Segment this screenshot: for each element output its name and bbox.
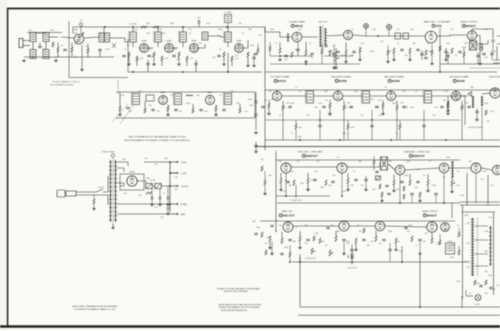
horiz osc triode V14b <box>439 163 449 173</box>
horiz AFC triode V14a <box>395 165 405 175</box>
wire IF gnd 3b <box>186 61 188 66</box>
wire sound n4a <box>321 44 323 48</box>
video detector diode coils <box>468 92 483 108</box>
boost capacitor under outputs <box>166 208 169 213</box>
resistor afc in1 <box>373 160 375 165</box>
wire rowB main drop 3 <box>390 90 392 91</box>
wire det c1b <box>476 113 478 118</box>
wire rowD drop3 <box>335 231 337 236</box>
ground rowC 4 <box>392 189 396 192</box>
svg-text:.005: .005 <box>400 103 404 105</box>
svg-text:470: 470 <box>491 185 494 187</box>
power output arrow 6.3VAC <box>170 203 188 206</box>
wire IF gnd 4a <box>223 57 225 62</box>
resistor rowB main Ra1 <box>268 103 270 108</box>
rowC right box top <box>466 173 468 205</box>
capacitor rowC c1 <box>254 145 257 146</box>
resistor rowD r5 <box>319 238 321 244</box>
svg-text:.002: .002 <box>484 29 488 31</box>
IF transformer T2 <box>154 31 162 43</box>
afc diode1 <box>376 176 381 180</box>
wire RF amp grid <box>49 36 58 38</box>
wire sound bus <box>265 27 292 37</box>
junction collector 1 <box>169 161 171 163</box>
dashed alignment pointer 1 <box>112 104 128 122</box>
junction rowB b2 <box>339 139 341 141</box>
stage title 3rd video IF <box>384 76 404 84</box>
ground transformer <box>111 226 115 229</box>
wire rowB drop4 <box>192 104 194 108</box>
wire rowC c1 stub <box>255 142 257 145</box>
wire C1 stub <box>39 43 41 46</box>
bottom box left side <box>299 257 301 307</box>
wire feed c1b <box>253 59 255 64</box>
wire sound drop 1 <box>279 42 281 48</box>
junction sound n2 <box>305 63 307 65</box>
wire afc to osc <box>405 168 439 170</box>
ground rowC 1 <box>279 188 283 191</box>
rowC bottom rail <box>276 195 330 197</box>
height control <box>329 250 333 256</box>
svg-text:120: 120 <box>381 41 384 43</box>
resistor bus decoupling Rb <box>153 26 159 28</box>
svg-text:.002: .002 <box>360 43 364 45</box>
power collector vertical <box>169 162 171 212</box>
capacitor IF C4a <box>217 55 220 56</box>
ground sound e2 <box>358 58 362 61</box>
svg-text:.25: .25 <box>189 33 192 35</box>
svg-text:2.2M: 2.2M <box>294 49 298 51</box>
ratio det tube V9a <box>343 30 352 39</box>
svg-text:.01: .01 <box>457 171 460 173</box>
svg-text:SYNC SEP + SYNC AMP: SYNC SEP + SYNC AMP <box>298 151 323 154</box>
svg-text:RATIO DET + 1ST AF AMP: RATIO DET + 1ST AF AMP <box>424 21 451 24</box>
svg-text:+ BOOST SOURCE: + BOOST SOURCE <box>467 127 483 129</box>
wire rowB main down 2 <box>343 110 345 140</box>
bottom long rail 2 <box>298 314 500 316</box>
resistor ratio R4 <box>329 50 331 56</box>
wire rowB agc1b <box>319 127 321 140</box>
capacitor AF C5 <box>400 49 403 50</box>
wire L pair link2 <box>45 42 47 50</box>
resistor rowD r10 <box>411 236 413 242</box>
oscillator tuning arrow <box>75 33 85 45</box>
capacitor afc low6 <box>434 193 437 194</box>
capacitor rowD c1 <box>254 233 257 234</box>
wire det out <box>482 93 490 94</box>
wire vert link3 <box>385 226 427 227</box>
capacitor audio k2 <box>476 55 479 56</box>
ground AF 2 <box>408 58 412 61</box>
wire rowB agc3a <box>423 110 425 125</box>
wire afc lw1 <box>381 197 383 199</box>
resistor det r2 <box>485 110 487 115</box>
ground IF 1 <box>127 63 131 66</box>
wire AF plate to audio <box>437 35 467 36</box>
wire rowB g2 <box>167 111 169 113</box>
capacitor audio C8 <box>482 53 485 54</box>
wire rowC tube2 drop <box>341 173 343 196</box>
video IF tube rowB V4 <box>451 91 460 100</box>
svg-text:470: 470 <box>481 179 484 181</box>
wire rowD g4 <box>395 244 397 249</box>
svg-text:6SL7GT: 6SL7GT <box>283 214 295 218</box>
ground rowD 6 <box>342 252 346 255</box>
wire sound net h2 <box>270 63 360 65</box>
resistor IF R3a <box>178 52 180 57</box>
wire rowB main down 3 <box>396 110 398 140</box>
audio output transformer T6 <box>470 41 477 50</box>
wire det r1a <box>447 96 449 101</box>
svg-text:.005: .005 <box>197 18 201 20</box>
ground rowC 2 <box>306 188 310 191</box>
resistor width R30 <box>458 232 460 237</box>
wire audio out b <box>491 55 493 60</box>
wire det c1a <box>476 108 478 111</box>
resistor afc extra1 <box>379 184 381 189</box>
capacitor flyback c1 <box>479 285 482 286</box>
svg-text:.25: .25 <box>219 95 222 97</box>
svg-text:2.2M: 2.2M <box>460 195 464 197</box>
ground hold <box>450 190 454 193</box>
wire rowD x5a <box>351 244 353 249</box>
wire audio mid rail <box>440 63 500 65</box>
svg-text:2.2M: 2.2M <box>484 231 488 233</box>
vert output tube V13 <box>427 222 437 232</box>
wire R2 gnd <box>57 52 59 57</box>
wire rowB main ra 2 <box>329 100 331 103</box>
capacitor rowC c2 <box>286 181 289 182</box>
wire HV top2 <box>117 168 124 172</box>
wire antenna to coil <box>23 40 30 42</box>
resistor linearity R31 <box>458 250 460 255</box>
power value labels <box>122 158 178 219</box>
svg-text:RF UNIT CHANNELS 2 THRU 13: RF UNIT CHANNELS 2 THRU 13 <box>53 81 80 84</box>
rowC right box right <box>487 175 489 205</box>
rowD bottom rail <box>292 261 470 263</box>
resistor rowB main Ra4 <box>447 103 449 108</box>
ground rowB 3 <box>214 113 218 116</box>
resistor rowC r6 <box>347 178 349 184</box>
video IF transformer T10 <box>305 90 313 104</box>
capacitor 6T8 out <box>446 55 449 56</box>
resistor afc low1 <box>381 192 383 197</box>
svg-text:OVERALL PERFORMANCE OF BOTH PI: OVERALL PERFORMANCE OF BOTH PICTURE AND <box>218 306 260 309</box>
wire audio screen a <box>481 42 483 46</box>
wire rowB main ra 1 <box>268 100 270 103</box>
wire rowB link4 <box>370 95 387 97</box>
wire flyback tap2 <box>475 239 489 241</box>
svg-text:1500: 1500 <box>249 105 253 107</box>
resistor det r1 <box>447 101 449 106</box>
svg-text:470: 470 <box>55 57 58 59</box>
capacitor ratio C4 <box>352 51 355 52</box>
capacitor AF n7 <box>420 53 423 54</box>
svg-text:.005: .005 <box>446 43 450 45</box>
svg-text:.01: .01 <box>415 91 418 93</box>
svg-text:.005: .005 <box>490 111 494 113</box>
bottom page rule <box>0 325 500 327</box>
wire dashed audio <box>470 67 500 69</box>
capacitor rowB main Ca4 <box>440 106 443 107</box>
wire sound n1b <box>269 51 271 56</box>
svg-text:.005: .005 <box>465 103 469 105</box>
svg-text:5U4G: 5U4G <box>130 172 135 174</box>
sound takeoff coil <box>287 33 289 42</box>
wire trap to T4 <box>208 36 225 37</box>
wire audio cathode <box>477 36 480 45</box>
stage title horiz afc osc <box>404 151 431 159</box>
wire rowD g5 <box>271 242 273 253</box>
resistor rowB r4 <box>192 108 194 113</box>
resistor 6T8 plate <box>439 46 441 51</box>
svg-text:6AG5: 6AG5 <box>161 91 166 94</box>
wire R4 drop <box>87 44 89 48</box>
wire sound n2a <box>297 42 299 49</box>
wire 6T8 out b <box>447 57 449 64</box>
wire R3 gnd <box>71 52 73 57</box>
resistor 6T8 cathode <box>431 50 433 55</box>
capacitor rowB c4 <box>199 109 202 110</box>
ground tuner mid <box>54 59 58 62</box>
svg-text:2.2M: 2.2M <box>372 29 376 31</box>
sync amp triode V6b <box>337 163 347 173</box>
resistor rowB deep3 <box>399 124 401 129</box>
wire rowB main rb 1 <box>282 101 284 105</box>
wire R2 drop <box>57 43 59 47</box>
horiz output tube V16 <box>471 163 481 173</box>
wire rowC r1b b <box>264 185 266 192</box>
resistor rowB main Ra2 <box>329 103 331 108</box>
rowD value labels <box>256 227 448 253</box>
mixer transformer L5b <box>105 33 110 42</box>
svg-text:.25: .25 <box>217 35 220 37</box>
IF tube V6 <box>235 44 244 53</box>
wire rowB agc2a <box>371 110 373 125</box>
svg-text:.005: .005 <box>414 187 418 189</box>
power transformer secondary <box>114 160 117 222</box>
svg-text:21.25MC: 21.25MC <box>224 12 232 14</box>
wire yoke bottom <box>461 296 463 308</box>
vert hold control <box>311 248 315 254</box>
wire rowB link1 <box>282 95 307 97</box>
interlock switch <box>96 189 108 192</box>
afc discriminator transformer <box>381 157 388 170</box>
svg-text:.002: .002 <box>304 225 308 227</box>
wire test point drop <box>80 26 82 33</box>
resistor IF R2b <box>161 56 163 61</box>
ground IF 2 <box>152 63 156 66</box>
svg-text:.01: .01 <box>85 46 88 48</box>
extra labels row D <box>252 221 459 243</box>
svg-text:.002: .002 <box>378 115 382 117</box>
capacitor rowD x5 <box>350 249 353 250</box>
svg-text:.005: .005 <box>270 99 274 101</box>
wire IF bus drop 3 <box>182 27 184 32</box>
AF amp triode V9b 6T8 <box>425 31 437 43</box>
mixer transformer L5a <box>99 33 104 42</box>
svg-text:TO VERT OSC: TO VERT OSC <box>290 200 302 202</box>
junction collector 4 <box>169 203 171 205</box>
wire hold gnd <box>451 186 453 190</box>
capacitor sound C1 <box>284 55 287 56</box>
capacitor rowD c4 <box>342 239 345 240</box>
svg-text:AUDIO OUTPUT: AUDIO OUTPUT <box>461 21 478 24</box>
svg-text:470: 470 <box>325 245 328 247</box>
wire rowB main rb 4 <box>461 101 463 105</box>
svg-text:470: 470 <box>311 57 314 59</box>
wire osc cathode long <box>81 45 83 68</box>
wire rowC e1b <box>365 181 367 188</box>
ground rowB main 2 <box>328 112 332 115</box>
svg-text:.005: .005 <box>234 55 238 57</box>
wire T6 secondary right <box>472 29 493 39</box>
resistor AF R8 <box>425 50 427 56</box>
svg-text:.005: .005 <box>190 58 194 60</box>
wire flyback tap4 <box>475 265 489 267</box>
resistor sound extra2 <box>359 48 361 53</box>
capacitor rowB main Cb2 <box>349 106 352 107</box>
wire rowB agc3b <box>423 127 425 140</box>
AC line cord wires <box>76 192 96 195</box>
capacitor C1 tuner <box>38 46 41 47</box>
wire fg2 <box>159 200 161 203</box>
wire flyback right <box>493 212 495 295</box>
junction rowD 1 <box>299 261 301 263</box>
svg-text:.047: .047 <box>144 158 148 160</box>
wire rowD g3 <box>355 244 357 249</box>
wire IF gnd 3a <box>178 57 180 62</box>
wire tuner upper rail <box>27 32 62 34</box>
wire AF n7a <box>421 50 423 53</box>
tuner shield vertical <box>68 21 70 78</box>
power transformer primary <box>109 160 112 222</box>
capacitor rowC c5 <box>354 179 357 180</box>
resistor sound n4 <box>321 48 323 53</box>
ground boost cap <box>166 212 170 215</box>
wire rowB drop6 <box>239 104 241 108</box>
wire sound n3a <box>333 46 335 53</box>
T5 secondary winding <box>324 28 327 45</box>
svg-text:1ST VIDEO IF AMP: 1ST VIDEO IF AMP <box>270 76 290 79</box>
wire rowD x6a <box>389 243 391 249</box>
ground IF 3 <box>177 63 181 66</box>
wire IF end gnd <box>247 57 249 64</box>
resistor rowC r3 <box>293 180 295 186</box>
wire rowB deep3a <box>399 120 401 124</box>
power output arrow 5VAC <box>170 213 186 216</box>
wire sound n2b <box>297 51 299 56</box>
row B bottom rail <box>265 139 500 141</box>
ground rowD 4 <box>394 248 398 251</box>
svg-text:.002: .002 <box>378 243 382 245</box>
resistor rowD x7 <box>439 240 441 245</box>
wire mixer out <box>110 38 129 42</box>
filter capacitor C20a <box>151 196 152 199</box>
video IF transformer T12 <box>423 90 431 104</box>
resistor afc extra3 <box>403 186 405 191</box>
stage title sync sep <box>298 151 323 159</box>
svg-text:.047: .047 <box>450 245 454 247</box>
ground feed <box>252 64 256 67</box>
junction bus a1 <box>104 26 106 28</box>
sound IF tube V7 6BA6 <box>292 32 302 42</box>
wire test point 2 drop <box>365 28 367 36</box>
capacitor afc extra2 <box>385 185 388 186</box>
wire bus drop tuner <box>72 27 74 33</box>
wire IF gnd 2a <box>153 57 155 62</box>
wire L2 bottom <box>32 57 34 59</box>
capacitor rowB agc3 <box>422 125 425 126</box>
svg-text:.047: .047 <box>282 191 286 193</box>
row B mid rail <box>265 119 460 121</box>
wire ratio det out <box>353 35 366 36</box>
rowB deep labels <box>291 127 397 135</box>
wire T4 to tube <box>227 42 229 47</box>
capacitor rowD x3 <box>280 253 283 254</box>
svg-text:6K6GT: 6K6GT <box>466 24 476 28</box>
capacitor rowC c7 <box>416 181 419 182</box>
horiz osc coil <box>451 161 454 178</box>
svg-text:.01: .01 <box>295 227 298 229</box>
svg-text:120: 120 <box>189 29 192 31</box>
wire L1-L3 top <box>36 32 46 35</box>
svg-text:.005: .005 <box>165 58 169 60</box>
wire AF drop 2 <box>409 54 411 59</box>
capacitor rowB main Ca1 <box>261 106 264 107</box>
extra labels row B <box>269 87 490 123</box>
junction rowD 3 <box>289 261 291 263</box>
resistor rowD x4 <box>313 236 315 241</box>
flyback dashed core <box>477 218 479 276</box>
junction rowC rail1 <box>285 195 287 197</box>
wire rowC g1 <box>280 184 282 189</box>
resistor rowB r5 <box>215 106 217 111</box>
wire sel link <box>153 185 155 187</box>
flyback value labels <box>450 215 499 295</box>
wire sec tap mid <box>117 183 124 186</box>
video IF transformer T11 <box>361 90 369 104</box>
svg-text:.005: .005 <box>235 58 239 60</box>
resistor rowC r1b <box>264 180 266 185</box>
resistor rowC r8 <box>409 180 411 186</box>
resistor flyback r1 <box>474 280 476 285</box>
power output arrow +115V B <box>170 185 189 188</box>
wire rowB main drop 4 <box>455 90 457 91</box>
wire det to AF <box>366 35 425 37</box>
svg-text:A PHOTOFACT STANDARD NOTATION: A PHOTOFACT STANDARD NOTATION SCHEMATIC <box>72 305 118 308</box>
svg-text:.01: .01 <box>395 133 398 135</box>
svg-text:.002: .002 <box>150 56 154 58</box>
wire vert link1 <box>293 225 339 227</box>
wire sound lower rail <box>265 71 497 73</box>
resistor audio R10 <box>479 44 481 50</box>
ground rowC e1 <box>364 188 368 191</box>
wire c20a <box>151 189 153 196</box>
svg-text:6K6GT: 6K6GT <box>427 214 437 218</box>
capacitor rowB main Ca3 <box>375 106 378 107</box>
capacitor IF C2a <box>147 55 150 56</box>
svg-text:.002: .002 <box>123 193 127 195</box>
video IF tube rowB V3 <box>386 91 395 100</box>
svg-text:6CB6: 6CB6 <box>339 79 347 83</box>
wire AF drop 1 <box>393 54 395 59</box>
rowB left value labels <box>120 91 253 113</box>
speaker voice coil stub <box>493 60 500 63</box>
IF transformer T1 <box>129 31 137 43</box>
svg-text:6SN7GT: 6SN7GT <box>306 154 318 158</box>
wire flyback left <box>462 205 464 299</box>
